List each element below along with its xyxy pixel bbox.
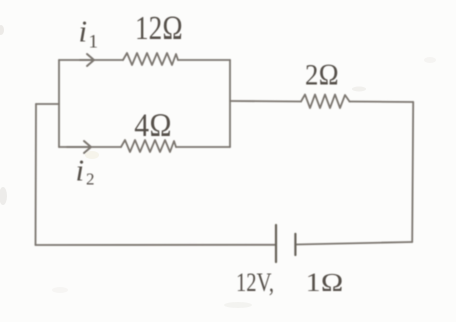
svg-text:12V,: 12V,: [236, 268, 274, 297]
svg-text:1Ω: 1Ω: [306, 268, 344, 297]
wire bottom branch right segment: [176, 146, 230, 148]
svg-text:4Ω: 4Ω: [134, 108, 172, 144]
arrow i1 current direction: [80, 54, 94, 66]
wire bottom left segment: [36, 244, 277, 246]
svg-text:i: i: [76, 153, 85, 188]
resistor 12Ω zigzag: [123, 53, 178, 65]
battery short plate: [294, 234, 296, 255]
wire outer left vertical: [35, 104, 38, 245]
wire top branch right segment: [178, 59, 230, 61]
svg-text:2: 2: [86, 170, 95, 189]
svg-text:i: i: [79, 14, 88, 49]
arrow i2 current direction: [67, 141, 91, 153]
resistor 2Ω zigzag: [301, 95, 350, 109]
wire right horizontal right segment: [350, 101, 414, 104]
wire right horizontal left segment: [230, 100, 301, 103]
wire left connector: [36, 103, 59, 105]
svg-text:12Ω: 12Ω: [135, 10, 183, 47]
svg-text:1: 1: [89, 31, 99, 52]
wire parallel-box right vertical: [229, 60, 231, 147]
resistor 4Ω zigzag: [121, 140, 176, 152]
battery long plate: [275, 225, 277, 262]
wire bottom branch left segment: [59, 146, 121, 148]
svg-text:2Ω: 2Ω: [305, 59, 339, 92]
wire top branch left segment: [59, 59, 123, 61]
wire parallel-box left vertical: [58, 60, 60, 147]
wire bottom right segment: [295, 242, 412, 245]
wire outer right vertical: [412, 102, 413, 242]
